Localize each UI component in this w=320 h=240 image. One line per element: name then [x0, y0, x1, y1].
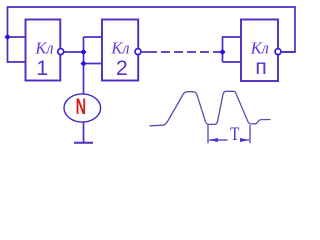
svg-text:T: T — [230, 124, 240, 145]
svg-text:п: п — [255, 56, 266, 79]
svg-text:Кл: Кл — [110, 39, 129, 58]
svg-text:N: N — [76, 94, 86, 119]
svg-text:1: 1 — [36, 56, 48, 80]
svg-text:2: 2 — [116, 56, 128, 80]
svg-text:Кл: Кл — [34, 39, 53, 58]
svg-text:Кл: Кл — [250, 39, 269, 58]
